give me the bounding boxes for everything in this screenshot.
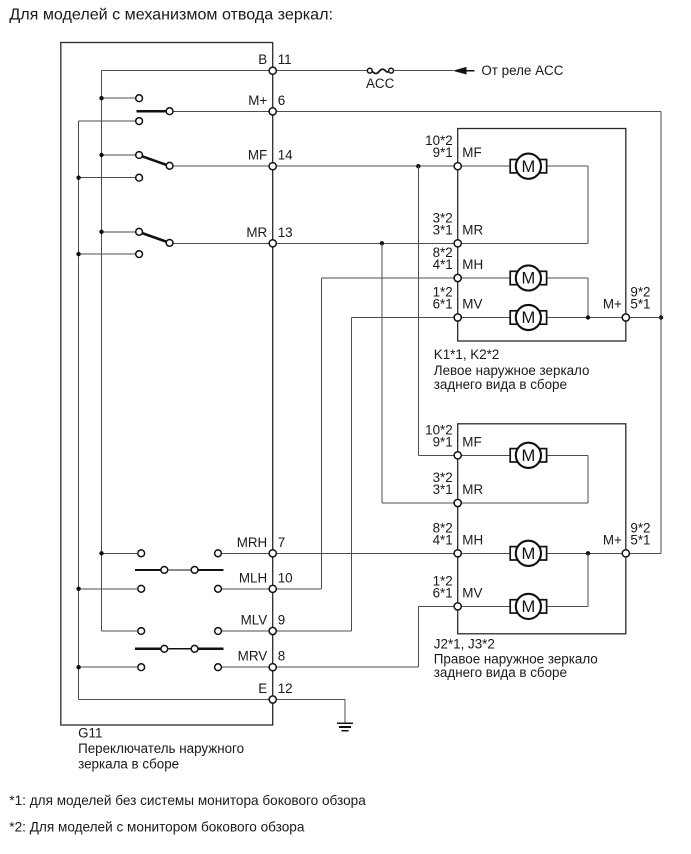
svg-text:6*1: 6*1 bbox=[433, 585, 453, 600]
wire bus1 to MF upper contact bbox=[102, 154, 136, 156]
contact MR upper bbox=[136, 228, 143, 235]
pin left mirror MF bbox=[454, 163, 461, 170]
svg-text:7: 7 bbox=[278, 535, 285, 550]
pin left mirror MR bbox=[454, 240, 461, 247]
junction left mirror M+ row bbox=[586, 315, 590, 319]
svg-text:MV: MV bbox=[462, 297, 482, 312]
wire right vertical M+ down to mirrors bbox=[660, 111, 662, 553]
wire right MV motor rightward bbox=[547, 605, 588, 607]
svg-text:M+: M+ bbox=[248, 93, 267, 108]
contact MLV right bbox=[215, 628, 222, 635]
wire down to ground bbox=[344, 700, 346, 724]
motor left mirror horizontal MH bbox=[510, 265, 546, 290]
wire left mirror MV pin to motor bbox=[458, 317, 511, 319]
wiper pivot MR bbox=[166, 240, 173, 247]
wire pin MF 14 to left mirror MF bbox=[273, 165, 458, 167]
junction M+ vertical / left mirror M+ bbox=[659, 315, 663, 319]
motor left mirror fold MF bbox=[510, 154, 546, 179]
svg-text:M: M bbox=[522, 545, 536, 563]
wire fuse to arrow bbox=[394, 70, 454, 72]
contact bar2 right circle bbox=[191, 645, 198, 652]
svg-text:M+: M+ bbox=[603, 297, 622, 312]
svg-text:MLH: MLH bbox=[239, 570, 267, 585]
svg-text:14: 14 bbox=[278, 148, 293, 163]
pin MF 14 bbox=[269, 163, 276, 170]
svg-text:MRV: MRV bbox=[238, 649, 268, 664]
contact bar1 right circle bbox=[191, 567, 198, 574]
wire MLV right contact to pin 9 bbox=[222, 630, 273, 632]
wire right mirror MR pin to loop bbox=[458, 502, 588, 504]
contact bar2 left circle bbox=[161, 645, 168, 652]
wire MF branch to right mirror MF bbox=[418, 454, 457, 456]
wire right mirror MH pin to motor bbox=[458, 552, 511, 554]
pin MR 13 bbox=[269, 240, 276, 247]
svg-text:заднего вида в сборе: заднего вида в сборе bbox=[434, 665, 567, 680]
wire MR branch down to right mirror bbox=[381, 243, 383, 503]
wire bus1 to MR upper contact bbox=[102, 231, 136, 233]
wire MRV right contact to pin 8 bbox=[222, 666, 273, 668]
svg-text:G11: G11 bbox=[78, 725, 102, 740]
motor right mirror fold MF bbox=[510, 443, 546, 468]
svg-text:8: 8 bbox=[278, 649, 285, 664]
svg-text:Левое наружное зеркало: Левое наружное зеркало bbox=[434, 363, 590, 378]
wire loop MF motor down to MR row bbox=[587, 166, 589, 243]
junction right mirror M+ row bbox=[586, 551, 590, 555]
switch wiper arm MF (closed to upper) bbox=[142, 156, 166, 165]
wire MF branch down to right mirror bbox=[417, 166, 419, 455]
wire right MV motor loop vertical bbox=[587, 553, 589, 606]
svg-text:Переключатель наружного: Переключатель наружного bbox=[78, 741, 244, 756]
svg-text:11: 11 bbox=[278, 52, 292, 67]
svg-text:4*1: 4*1 bbox=[433, 257, 453, 272]
svg-text:От реле ACC: От реле ACC bbox=[481, 63, 563, 78]
pin left mirror MV bbox=[454, 314, 461, 321]
svg-text:M+: M+ bbox=[603, 532, 622, 547]
wire right mirror MV pin to motor bbox=[458, 605, 511, 607]
wire bus1 from pin B down to MLV contact bbox=[101, 71, 103, 631]
wire bus1 to M+ upper contact bbox=[102, 97, 136, 99]
wire MRH right contact to pin 7 bbox=[222, 552, 273, 554]
svg-text:3*1: 3*1 bbox=[433, 222, 453, 237]
wire loop MF motor down to MR row bbox=[587, 455, 589, 503]
select switch movable contact bar 2 bbox=[135, 648, 160, 650]
junction bus1 / MF upper contact bbox=[99, 153, 103, 157]
svg-text:ACC: ACC bbox=[366, 76, 395, 91]
svg-text:MR: MR bbox=[246, 225, 267, 240]
svg-text:MR: MR bbox=[462, 222, 483, 237]
wire left mirror MF pin to motor bbox=[458, 165, 511, 167]
wire bus2 to MF lower contact bbox=[79, 177, 136, 179]
contact MLH right bbox=[215, 585, 222, 592]
contact MLH left bbox=[138, 585, 145, 592]
contact MRH left bbox=[138, 550, 145, 557]
svg-text:MR: MR bbox=[462, 482, 483, 497]
wire left mirror M+ pin to right vertical bbox=[626, 317, 661, 319]
wire pin MR 13 to left mirror MR bbox=[273, 242, 458, 244]
fuse ACC bbox=[367, 68, 393, 73]
svg-text:*1: для моделей без системы мо: *1: для моделей без системы монитора бок… bbox=[9, 793, 366, 808]
arrow from ACC relay bbox=[453, 67, 467, 75]
wire pin B 11 to fuse ACC bbox=[273, 70, 368, 72]
junction bus2 / MR lower contact bbox=[76, 252, 80, 256]
select switch movable contact bar 1 bbox=[135, 569, 160, 571]
wire left mirror MR pin to loop bbox=[458, 242, 588, 244]
svg-text:9*1: 9*1 bbox=[433, 145, 453, 160]
wire MLH to left mirror MH bbox=[322, 277, 458, 279]
pin right mirror MH bbox=[454, 550, 461, 557]
wire MRV to right mirror MV bbox=[418, 605, 457, 607]
pin MLV 9 bbox=[269, 627, 276, 634]
svg-text:9*1: 9*1 bbox=[433, 434, 453, 449]
svg-text:*2: Для моделей с монитором бо: *2: Для моделей с монитором бокового обз… bbox=[9, 820, 305, 835]
wire MF wiper to pin 14 bbox=[174, 165, 273, 167]
wire pin MLH 10 rightward bbox=[273, 588, 322, 590]
contact MLV left bbox=[138, 628, 145, 635]
svg-text:M: M bbox=[522, 309, 536, 327]
wire left mirror MH pin to motor bbox=[458, 277, 511, 279]
svg-text:6: 6 bbox=[278, 93, 285, 108]
svg-text:зеркала в сборе: зеркала в сборе bbox=[78, 757, 179, 772]
junction bus1 / MR upper contact bbox=[99, 230, 103, 234]
svg-text:MRH: MRH bbox=[237, 535, 268, 550]
wire bus2 to MLH left contact bbox=[79, 588, 138, 590]
pin M+ 6 bbox=[269, 108, 276, 115]
junction MR branch bbox=[380, 241, 384, 245]
svg-text:5*1: 5*1 bbox=[630, 532, 650, 547]
svg-text:9: 9 bbox=[278, 613, 285, 628]
wire pin MLV 9 rightward bbox=[273, 630, 352, 632]
pin MRV 8 bbox=[269, 664, 276, 671]
wire MLH up to left mirror MH row bbox=[321, 278, 323, 589]
contact MRV right bbox=[215, 664, 222, 671]
wire bus2 to MRV left contact bbox=[79, 666, 138, 668]
wire bus2 to pin E bbox=[79, 699, 273, 701]
pin right mirror MV bbox=[454, 603, 461, 610]
wire bus2 to MR lower contact bbox=[79, 253, 136, 255]
wire pin B to bus1 bbox=[102, 70, 273, 72]
pin left mirror MH bbox=[454, 274, 461, 281]
right mirror assembly box J2/J3 bbox=[458, 424, 626, 634]
wire right MH motor to M+ pin bbox=[547, 552, 626, 554]
wire pin MRH 7 to right mirror MH bbox=[273, 552, 458, 554]
wiper pivot MF bbox=[166, 162, 173, 169]
svg-text:13: 13 bbox=[278, 225, 293, 240]
wire MLV up to left mirror MV row bbox=[350, 318, 352, 632]
wire right mirror MF pin to motor bbox=[458, 454, 511, 456]
switch wiper arm MR (closed to upper) bbox=[142, 233, 166, 242]
wiper pivot M+ bbox=[166, 108, 173, 115]
ground bbox=[337, 723, 353, 730]
svg-text:3*1: 3*1 bbox=[433, 482, 453, 497]
wire right MF motor to loop bbox=[547, 454, 588, 456]
svg-text:MH: MH bbox=[462, 257, 483, 272]
svg-text:E: E bbox=[258, 681, 267, 696]
wire MR branch to right mirror MR bbox=[382, 502, 458, 504]
wire MRV up to right mirror MV row bbox=[417, 606, 419, 667]
svg-text:MF: MF bbox=[462, 434, 481, 449]
junction bus2 / MF lower contact bbox=[76, 176, 80, 180]
wire M+ wiper to pin 6 bbox=[174, 110, 273, 112]
motor right mirror vertical MV bbox=[510, 594, 546, 619]
wire left MH motor down to M+ row bbox=[587, 278, 589, 318]
svg-text:5*1: 5*1 bbox=[630, 297, 650, 312]
svg-text:MLV: MLV bbox=[241, 613, 268, 628]
svg-text:M: M bbox=[522, 158, 536, 176]
switch G11 outline box bbox=[61, 43, 273, 726]
wire left MH motor rightward bbox=[547, 277, 588, 279]
wire pin MRV 8 rightward bbox=[273, 666, 419, 668]
motor right mirror horizontal MH bbox=[510, 541, 546, 566]
contact MR lower bbox=[136, 251, 143, 258]
junction MF branch bbox=[416, 164, 420, 168]
contact bar1 left circle bbox=[161, 567, 168, 574]
pin MRH 7 bbox=[269, 550, 276, 557]
switch wiper arm M+ (neutral) bbox=[137, 110, 166, 112]
svg-text:MF: MF bbox=[462, 145, 481, 160]
contact M+ upper bbox=[136, 95, 143, 102]
wire bus1 to MRH left contact bbox=[102, 552, 138, 554]
wire right mirror M+ pin to right vertical bbox=[626, 552, 661, 554]
junction bus2 / MLH contact bbox=[76, 587, 80, 591]
svg-text:4*1: 4*1 bbox=[433, 532, 453, 547]
wire pin M+ 6 to right vertical bbox=[273, 110, 661, 112]
wire left MF motor to loop bbox=[547, 165, 588, 167]
svg-text:MH: MH bbox=[462, 532, 483, 547]
svg-text:MV: MV bbox=[462, 585, 482, 600]
svg-text:заднего вида в сборе: заднего вида в сборе bbox=[434, 377, 567, 392]
wire left MV motor to M+ pin bbox=[547, 317, 626, 319]
contact M+ lower bbox=[136, 118, 143, 125]
pin right mirror M+ bbox=[622, 550, 629, 557]
contact MRV left bbox=[138, 664, 145, 671]
contact MRH right bbox=[215, 550, 222, 557]
svg-text:M: M bbox=[522, 270, 536, 288]
contact MF upper bbox=[136, 152, 143, 159]
left mirror assembly box K1/K2 bbox=[458, 129, 626, 342]
svg-text:Для моделей с механизмом отвод: Для моделей с механизмом отвода зеркал: bbox=[9, 5, 333, 23]
pin B 11 bbox=[269, 67, 276, 74]
wire MLV to left mirror MV bbox=[351, 317, 457, 319]
svg-text:M: M bbox=[522, 447, 536, 465]
svg-text:B: B bbox=[258, 52, 267, 67]
pin right mirror MR bbox=[454, 499, 461, 506]
pin MLH 10 bbox=[269, 585, 276, 592]
svg-text:M: M bbox=[522, 598, 536, 616]
motor left mirror vertical MV bbox=[510, 305, 546, 330]
wire bus2 to M+ lower contact bbox=[79, 120, 136, 122]
svg-text:12: 12 bbox=[278, 681, 293, 696]
svg-text:J2*1, J3*2: J2*1, J3*2 bbox=[434, 637, 495, 652]
pin E 12 bbox=[269, 696, 276, 703]
pin left mirror M+ bbox=[622, 314, 629, 321]
pin right mirror MF bbox=[454, 452, 461, 459]
wire MR wiper to pin 13 bbox=[174, 242, 273, 244]
contact MF lower bbox=[136, 174, 143, 181]
svg-text:6*1: 6*1 bbox=[433, 297, 453, 312]
wire bus1 end to MLV left contact bbox=[102, 630, 138, 632]
svg-text:K1*1, K2*2: K1*1, K2*2 bbox=[434, 347, 500, 362]
junction bus1 / M+ upper contact bbox=[99, 96, 103, 100]
wire MLH right contact to pin 10 bbox=[222, 588, 273, 590]
wire pin E 12 to ground bbox=[273, 699, 345, 701]
svg-text:10: 10 bbox=[278, 570, 293, 585]
junction bus1 / MRH contact bbox=[99, 551, 103, 555]
junction bus2 / MRV contact bbox=[76, 665, 80, 669]
wire bus2 from M+ lower contact down to pin E bbox=[78, 121, 80, 699]
svg-text:MF: MF bbox=[248, 148, 267, 163]
